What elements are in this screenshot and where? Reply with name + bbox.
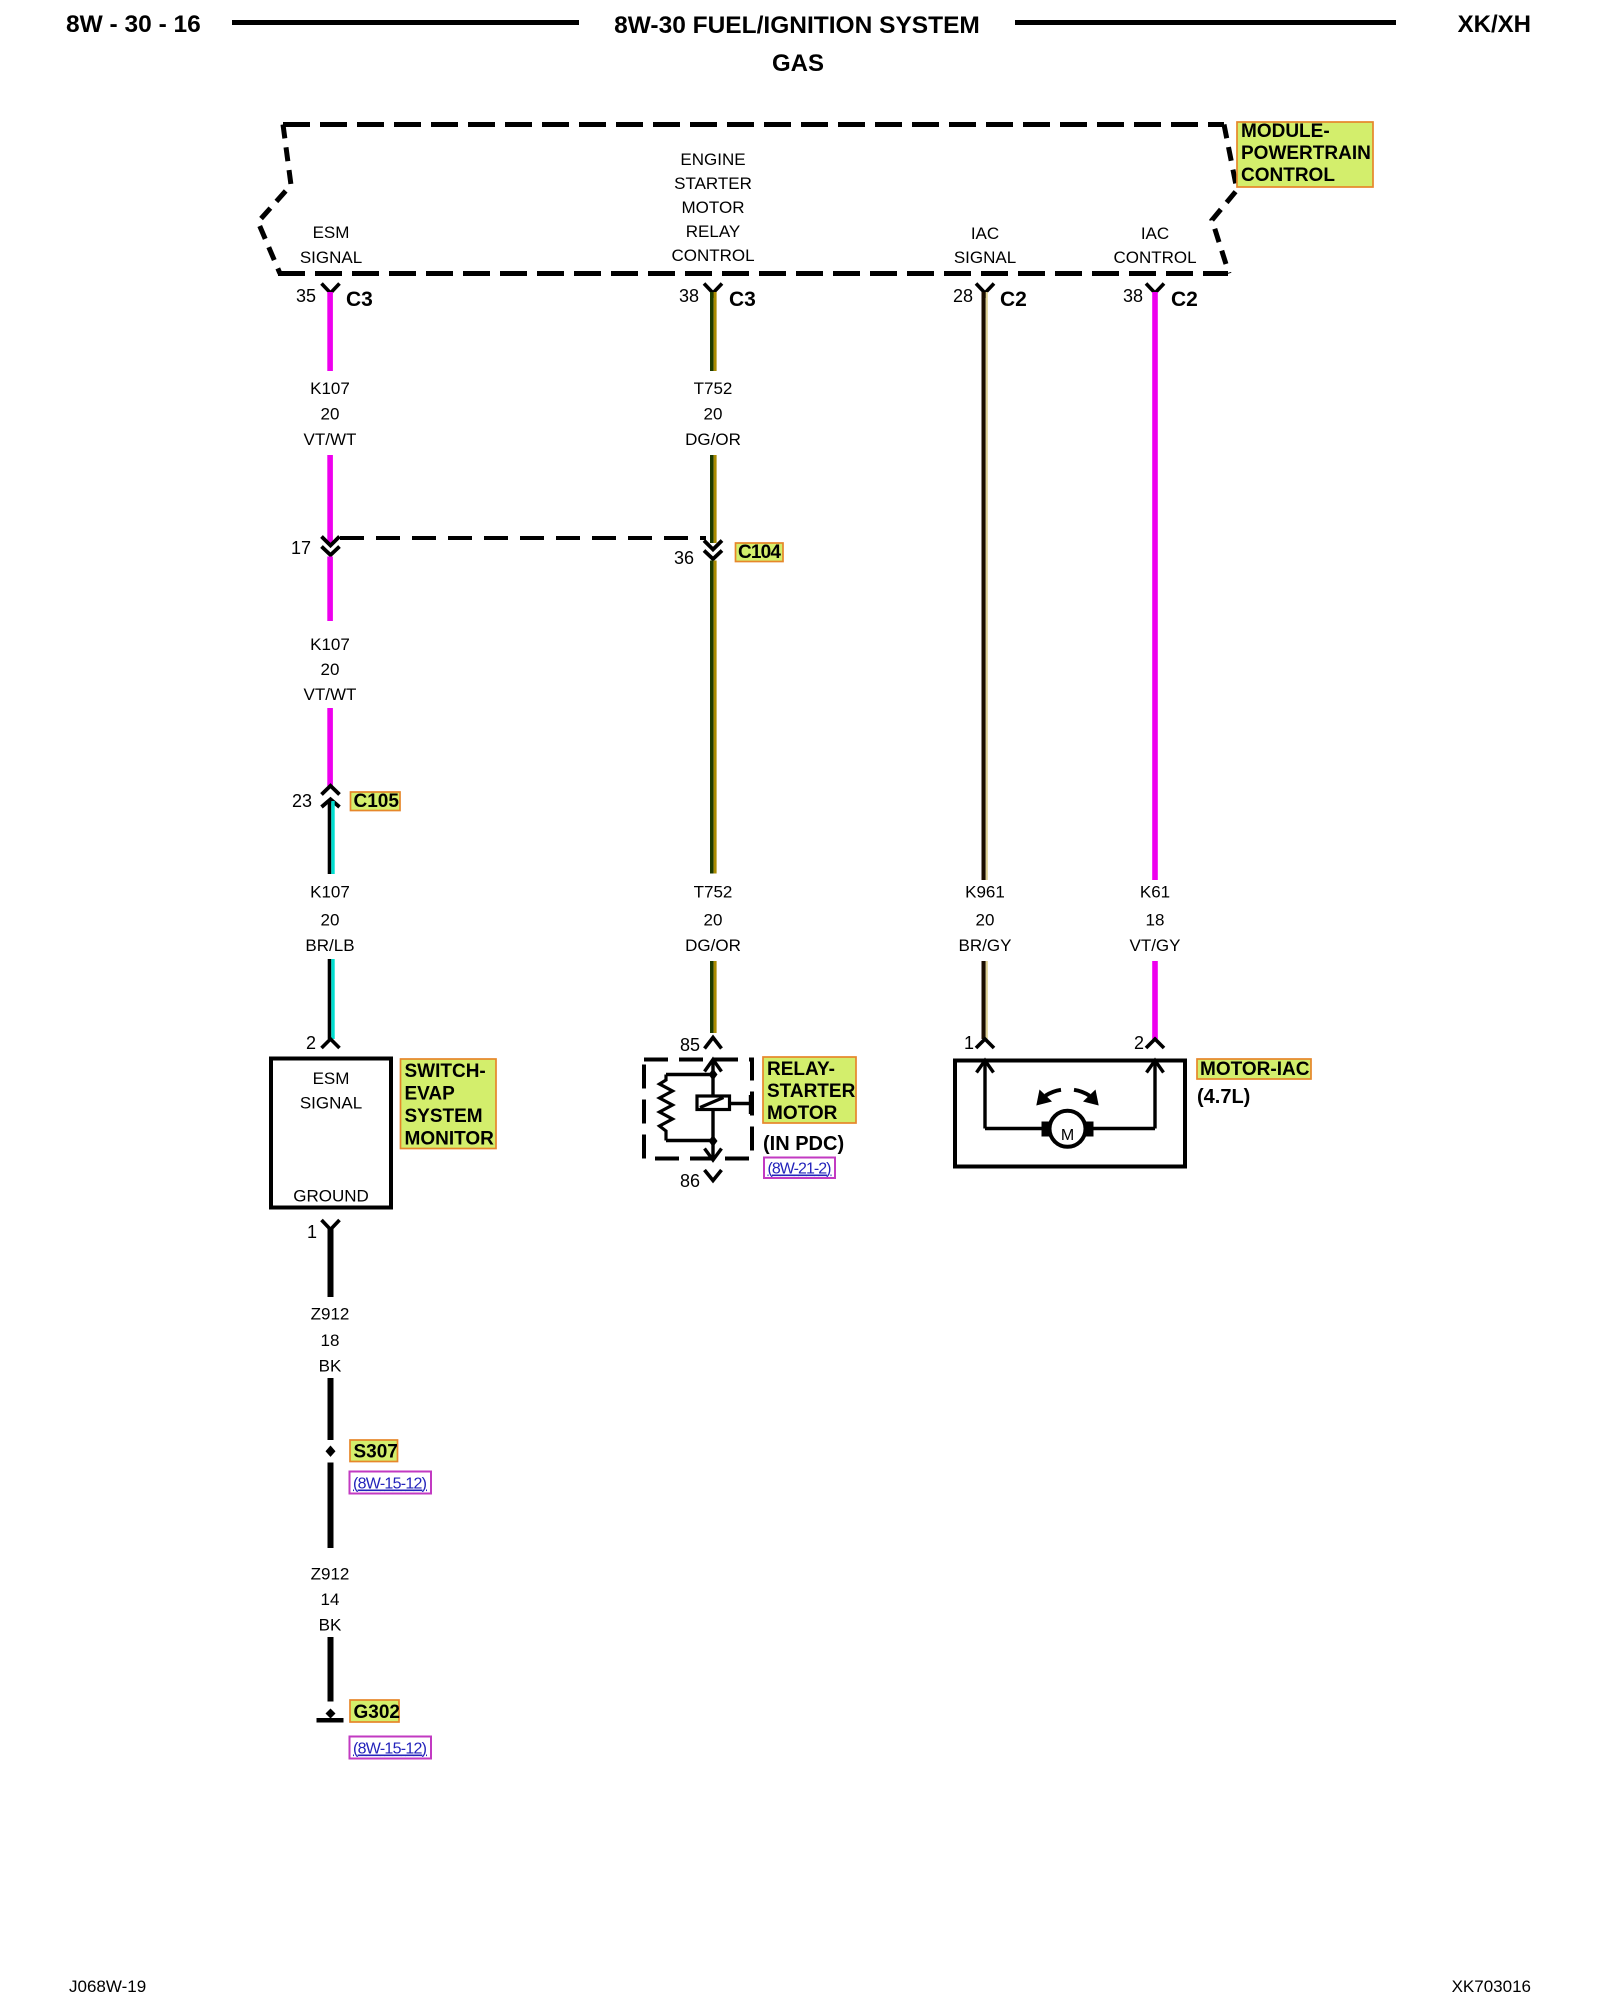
svg-text:BR/GY: BR/GY [959,936,1012,955]
svg-text:17: 17 [291,538,311,558]
wire T752 20 DG/OR segment 3 [710,561,717,874]
svg-text:C104: C104 [738,542,781,563]
header rule right [1015,20,1396,25]
junction node at relay coil top [709,1069,718,1081]
svg-text:C3: C3 [346,288,373,311]
wire K961 20 BR/GY segment 2 [982,961,988,1039]
resistor R1 inside relay [660,1075,673,1141]
svg-text:DG/OR: DG/OR [685,936,741,955]
svg-text:C2: C2 [1171,288,1198,311]
motor M1 armature circle with M [1050,1111,1086,1147]
motor M1 rotation arrow left [1036,1090,1061,1106]
connector C105 pin 23 chevrons [322,786,340,807]
svg-text:ESM: ESM [313,223,350,242]
svg-text:38: 38 [1123,286,1143,306]
svg-text:20: 20 [704,405,723,424]
wire motor right lead horizontal [1093,1127,1155,1130]
relay K1 starter motor relay dashed box [644,1060,752,1159]
wire K61 18 VT/GY segment 1 (violet) [1152,292,1158,880]
reference link 8W-21-2 [764,1158,835,1179]
svg-text:M: M [1061,1127,1074,1144]
wire T752 20 DG/OR segment 1 (dark green/orange) [710,292,717,371]
svg-text:18: 18 [1146,911,1165,930]
ground G302 symbol [317,1709,344,1723]
motor M1 left lead with up arrow [977,1061,994,1129]
wire from resistor bottom [666,1139,713,1142]
wire Z912 18 BK segment 2 [328,1378,334,1440]
svg-text:C3: C3 [729,288,756,311]
svg-text:EVAP: EVAP [405,1084,456,1105]
svg-text:BK: BK [319,1357,342,1376]
svg-text:20: 20 [321,405,340,424]
wire K107 20 VT/WT segment 1 [327,292,333,371]
svg-text:J068W-19: J068W-19 [69,1977,146,1996]
svg-text:MODULE-: MODULE- [1241,121,1330,142]
svg-text:SWITCH-: SWITCH- [405,1061,486,1082]
svg-text:SIGNAL: SIGNAL [300,248,362,267]
svg-text:XK703016: XK703016 [1452,1977,1531,1996]
svg-text:VT/WT: VT/WT [304,685,357,704]
reference link 8W-15-12 at S307 [350,1472,432,1494]
svg-text:MOTOR-IAC: MOTOR-IAC [1200,1059,1310,1080]
connector pin 2 of ESM [306,1033,340,1053]
node ESM SIGNAL pin name [300,223,362,267]
svg-text:ESM: ESM [313,1069,350,1088]
svg-text:T752: T752 [694,379,733,398]
svg-text:K961: K961 [965,883,1005,902]
module U1 dashed outline right torn edge [1212,125,1237,274]
svg-text:S307: S307 [354,1442,398,1463]
splice S307 highlight label [350,1440,398,1463]
label wire Z912 18 BK [311,1305,350,1376]
wire to resistor top [666,1073,713,1076]
svg-text:C2: C2 [1000,288,1027,311]
svg-text:(IN PDC): (IN PDC) [763,1133,844,1155]
svg-text:14: 14 [321,1590,340,1609]
svg-text:1: 1 [307,1222,317,1242]
svg-text:BK: BK [319,1616,342,1635]
svg-text:8W-30 FUEL/IGNITION SYSTEM: 8W-30 FUEL/IGNITION SYSTEM [614,12,980,39]
connector pin 1 of ESM [307,1220,340,1242]
svg-text:28: 28 [953,286,973,306]
connector pin 2 of IAC motor [1134,1033,1164,1053]
switch S1 label SWITCH-EVAP SYSTEM MONITOR highlight box [401,1059,497,1150]
motor M1 rotation arrow right [1074,1090,1099,1106]
connector pin 1 of IAC motor [964,1033,994,1053]
label wire T752 20 DG/OR [685,379,741,449]
label wire Z912 14 BK [311,1565,350,1635]
svg-text:1: 1 [964,1033,974,1053]
wire Z912 14 BK segment 2 [328,1637,334,1702]
svg-text:Z912: Z912 [311,1565,350,1584]
svg-text:(4.7L): (4.7L) [1197,1086,1250,1108]
connector C104 pin 17 chevrons [322,537,340,556]
svg-text:8W - 30 - 16: 8W - 30 - 16 [66,11,201,38]
svg-text:38: 38 [679,286,699,306]
svg-text:DG/OR: DG/OR [685,430,741,449]
connector C3 pin 35 [296,284,373,312]
motor M1 right lead with up arrow [1147,1061,1164,1129]
svg-text:MONITOR: MONITOR [405,1129,495,1150]
svg-text:IAC: IAC [1141,224,1169,243]
svg-text:T752: T752 [694,883,733,902]
node ESM SIGNAL label inside box [300,1069,362,1113]
wire T752 20 DG/OR segment 4 [710,961,717,1033]
wire K61 18 VT/GY segment 2 [1152,961,1158,1039]
connector C105 highlight label [351,791,401,812]
svg-text:RELAY-: RELAY- [767,1059,835,1080]
connector C104 highlight label [736,542,784,563]
relay K1 coil feed wire with up arrow [705,1060,722,1097]
motor M1 right brush [1084,1122,1094,1137]
label wire K61 18 VT/GY [1129,883,1180,956]
svg-text:VT/WT: VT/WT [304,430,357,449]
label wire K107 20 BR/LB [305,883,354,956]
connector C2 pin 28 [953,284,1027,312]
connector C2 pin 38 [1123,284,1198,312]
wire motor left lead horizontal [985,1127,1043,1130]
motor M1 IAC motor box [955,1061,1185,1167]
junction node at relay coil bottom [709,1135,718,1147]
svg-text:C105: C105 [354,791,400,812]
svg-text:20: 20 [704,911,723,930]
svg-text:(8W-15-12): (8W-15-12) [353,1476,427,1493]
svg-text:MOTOR: MOTOR [767,1103,838,1124]
module U1 dashed outline bottom edge [278,271,1228,276]
relay K1 coil return wire with down arrow [705,1110,722,1161]
svg-text:86: 86 [680,1171,700,1191]
svg-text:STARTER: STARTER [674,174,752,193]
svg-text:K107: K107 [310,883,350,902]
svg-text:23: 23 [292,791,312,811]
svg-text:BR/LB: BR/LB [305,936,354,955]
wire K107 20 BR/LB segment 2 [328,959,335,1039]
module U1 dashed outline left torn edge [258,125,291,274]
ground G302 highlight label [350,1700,400,1723]
svg-text:ENGINE: ENGINE [680,150,745,169]
svg-text:MOTOR: MOTOR [682,198,745,217]
wire Z912 14 BK segment 1 [328,1463,334,1549]
motor M1 label MOTOR-IAC highlight box [1197,1059,1311,1080]
svg-text:SYSTEM: SYSTEM [405,1106,483,1127]
svg-text:20: 20 [321,911,340,930]
connector pin 85 of relay [680,1035,722,1055]
svg-text:G302: G302 [354,1702,400,1723]
svg-text:(8W-15-12): (8W-15-12) [353,1741,427,1758]
label wire K961 20 BR/GY [959,883,1012,956]
svg-text:GROUND: GROUND [293,1187,369,1206]
svg-text:36: 36 [674,548,694,568]
svg-text:18: 18 [321,1331,340,1350]
svg-text:CONTROL: CONTROL [1113,248,1196,267]
connector pin 86 of relay [680,1170,722,1191]
wire K107 20 BR/LB segment 1 (brown/light-blue) [328,801,335,874]
label wire K107 20 VT/WT below C104 [304,635,357,704]
wire K107 20 VT/WT segment 2 [327,455,333,545]
node ENGINE STARTER MOTOR RELAY CONTROL pin name [671,150,754,265]
wire dashed harness line to C104 [340,536,706,540]
svg-text:STARTER: STARTER [767,1081,856,1102]
connector C3 pin 38 [679,284,756,312]
svg-text:85: 85 [680,1035,700,1055]
svg-text:20: 20 [321,660,340,679]
module U1 powertrain control module dashed outline top edge [283,122,1224,127]
svg-text:XK/XH: XK/XH [1458,11,1531,38]
svg-text:K107: K107 [310,635,350,654]
wire T752 20 DG/OR segment 2 [710,455,717,543]
svg-text:POWERTRAIN: POWERTRAIN [1241,143,1371,164]
module U1 label MODULE-POWERTRAIN CONTROL highlight box [1237,121,1373,187]
wire K107 20 VT/WT segment 3 [327,557,333,622]
node IAC CONTROL pin name [1113,224,1196,267]
svg-text:SIGNAL: SIGNAL [954,248,1016,267]
svg-text:RELAY: RELAY [686,222,741,241]
label wire K107 20 VT/WT [304,379,357,449]
splice S307 node [326,1446,336,1457]
wire K961 20 BR/GY segment 1 (brown/gray) [982,292,988,880]
svg-text:2: 2 [1134,1033,1144,1053]
svg-text:GAS: GAS [772,50,824,77]
switch S1 EVAP system monitor box [271,1059,391,1208]
svg-text:Z912: Z912 [311,1305,350,1324]
wire Z912 18 BK segment 1 (black) [328,1228,334,1297]
svg-text:K61: K61 [1140,883,1170,902]
svg-text:VT/GY: VT/GY [1129,936,1180,955]
relay K1 armature stub to contact [730,1095,751,1114]
node IAC SIGNAL pin name [954,224,1016,267]
relay K1 coil box [697,1096,730,1110]
header rule left [232,20,579,25]
svg-text:2: 2 [306,1033,316,1053]
svg-text:20: 20 [976,911,995,930]
motor M1 left brush [1042,1122,1052,1137]
label wire T752 20 DG/OR lower [685,883,741,956]
relay K1 label RELAY-STARTER MOTOR highlight box [763,1057,856,1124]
svg-text:SIGNAL: SIGNAL [300,1094,362,1113]
svg-text:(8W-21-2): (8W-21-2) [768,1161,832,1178]
svg-text:CONTROL: CONTROL [1241,165,1335,186]
reference link 8W-15-12 at G302 [350,1737,432,1759]
svg-text:CONTROL: CONTROL [671,246,754,265]
svg-text:IAC: IAC [971,224,999,243]
svg-text:K107: K107 [310,379,350,398]
connector C104 pin 36 chevrons [704,541,722,560]
svg-text:35: 35 [296,286,316,306]
wire K107 20 VT/WT segment 4 [327,708,333,786]
